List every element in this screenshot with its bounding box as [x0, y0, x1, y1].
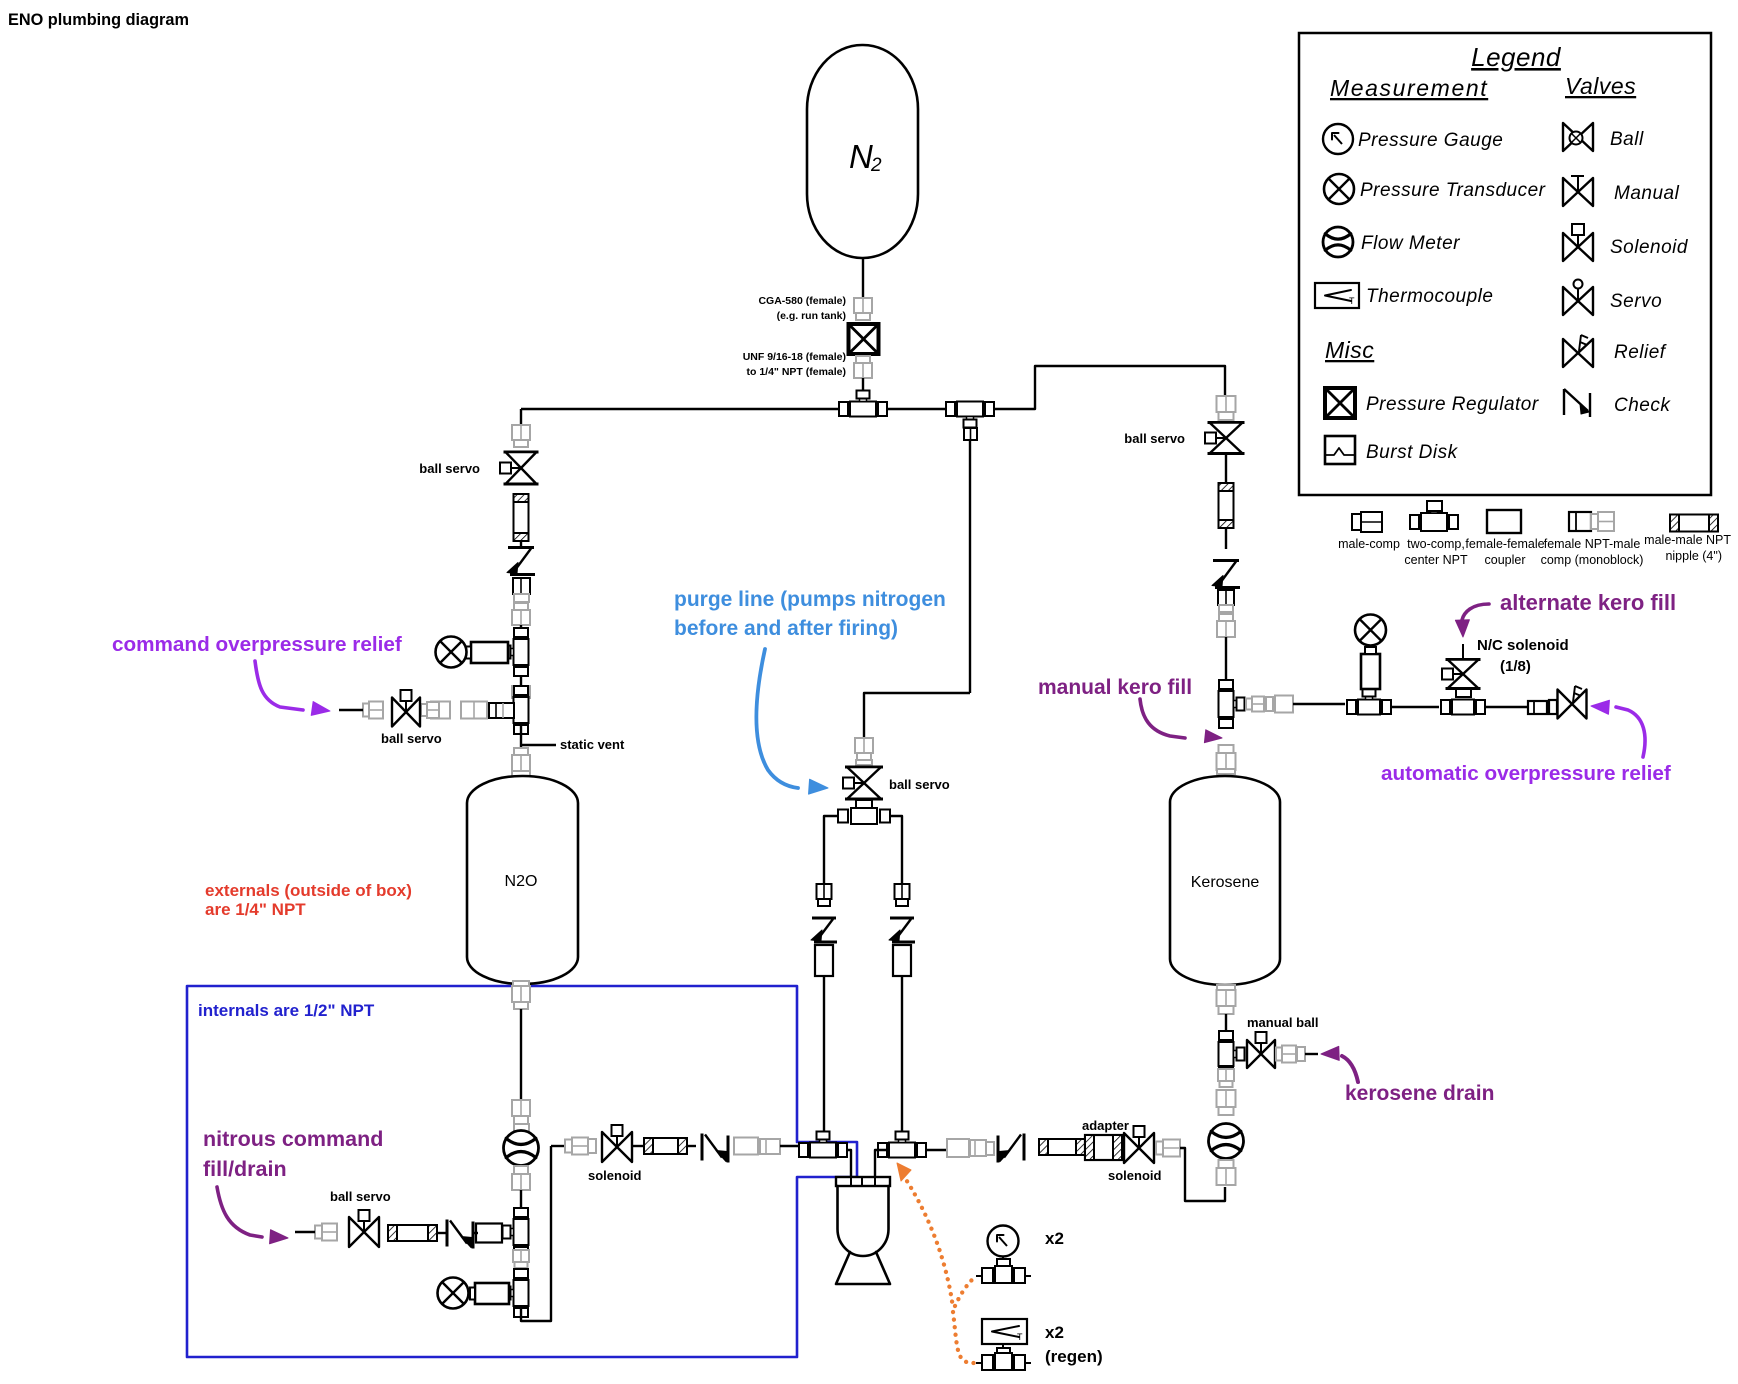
- wire to tee T7: [780, 1145, 800, 1147]
- relief valve RV1: [1558, 686, 1587, 719]
- label ball servo BS1: [419, 461, 480, 476]
- nipple solenoid line: [644, 1138, 687, 1154]
- engine nozzle: [836, 1252, 890, 1284]
- tank N2: [807, 45, 918, 258]
- svg-text:T: T: [1349, 296, 1355, 306]
- svg-text:kerosene drain: kerosene drain: [1345, 1082, 1494, 1105]
- fitting male-comp above T4: [512, 686, 530, 703]
- label N2O: [505, 873, 538, 890]
- arrow purge line: [756, 649, 828, 794]
- tee T4 relief branch tee: [503, 686, 529, 734]
- wire nipple to check CV1: [520, 541, 522, 547]
- key monoblock symbol: [1569, 512, 1614, 531]
- wire FM1 to tee T5: [520, 1190, 522, 1219]
- fitting stack below CV7: [1217, 590, 1235, 637]
- ball servo valve BS3: [349, 1210, 379, 1247]
- wire fill-drain stub: [295, 1231, 315, 1233]
- legend check valve text: [1614, 395, 1671, 416]
- engine chamber: [838, 1186, 889, 1256]
- key male-comp symbol: [1352, 512, 1382, 532]
- key two-comp label: [1404, 537, 1468, 567]
- fitting male-comp solenoid line start: [565, 1138, 596, 1155]
- fitting monoblock left of T4: [489, 703, 514, 718]
- tee T1 two-comp center NPT: [839, 391, 887, 417]
- wire purge left drop: [823, 976, 825, 1134]
- svg-text:UNF 9/16-18 (female): UNF 9/16-18 (female): [743, 351, 846, 363]
- legend burst disk text: [1366, 442, 1459, 463]
- label x2 regen: [1045, 1323, 1103, 1366]
- key nipple symbol: [1670, 515, 1718, 532]
- key nipple label: [1644, 533, 1731, 563]
- arrow automatic overpressure relief: [1591, 700, 1645, 757]
- wire purge drop from T2: [969, 421, 971, 693]
- fitting male-comp below regulator: [854, 356, 872, 378]
- wire T4 to static vent: [520, 723, 522, 752]
- tee T13 drain tee: [1219, 1031, 1245, 1077]
- svg-text:fill/drain: fill/drain: [203, 1157, 287, 1181]
- wire purge left branch: [824, 816, 838, 884]
- label solenoid SV3: [1108, 1168, 1162, 1183]
- wire manifold T1 to T2: [876, 408, 949, 410]
- legend pressure transducer symbol: [1324, 174, 1354, 204]
- legend manual valve text: [1614, 183, 1680, 204]
- adapter fitting: [1085, 1135, 1122, 1160]
- svg-text:Servo: Servo: [1610, 291, 1662, 312]
- fitting male-comp left: [421, 702, 439, 718]
- flow meter FM2: [1209, 1124, 1244, 1159]
- svg-text:ENO plumbing diagram: ENO plumbing diagram: [8, 11, 189, 29]
- thermocouple TC1: [982, 1319, 1027, 1344]
- label kerosene drain: [1345, 1082, 1494, 1105]
- wire tank to T13: [1225, 1014, 1227, 1031]
- tee T3 transducer tee: [503, 628, 529, 676]
- key female-female label: [1465, 537, 1544, 567]
- legend relief valve text: [1614, 342, 1667, 363]
- orange dotted branch to thermocouple: [953, 1312, 974, 1363]
- tank Kerosene: [1170, 776, 1280, 985]
- fitting male-comp below FM2: [1217, 1160, 1236, 1185]
- label ball servo BS2: [381, 731, 442, 746]
- svg-text:comp (monoblock): comp (monoblock): [1541, 553, 1644, 567]
- pressure transducer PT2: [438, 1278, 510, 1309]
- arrow command overpressure relief: [255, 661, 330, 715]
- legend pressure regulator text: [1366, 394, 1539, 415]
- wire BS5 to nipple: [1225, 454, 1227, 483]
- svg-text:(1/8): (1/8): [1500, 658, 1531, 675]
- label command overpressure relief: [112, 633, 402, 656]
- svg-text:ball servo: ball servo: [1124, 431, 1185, 446]
- legend solenoid valve symbol: [1563, 224, 1593, 261]
- wire to tee T3: [520, 625, 522, 631]
- label static vent: [560, 737, 625, 752]
- svg-text:center NPT: center NPT: [1404, 553, 1468, 567]
- svg-text:Manual: Manual: [1614, 183, 1680, 204]
- legend header Misc: [1325, 337, 1374, 363]
- legend header Valves: [1565, 73, 1636, 99]
- legend pressure transducer text: [1360, 180, 1546, 201]
- svg-text:solenoid: solenoid: [1108, 1168, 1162, 1183]
- svg-text:coupler: coupler: [1485, 553, 1526, 567]
- legend header Measurement: [1330, 75, 1488, 101]
- wire corner to solenoid fitting: [551, 1145, 565, 1147]
- tee T6 transducer tee: [503, 1269, 529, 1317]
- legend relief valve symbol: [1563, 335, 1593, 367]
- check valve CV1: [507, 548, 535, 575]
- svg-text:Kerosene: Kerosene: [1191, 874, 1260, 891]
- legend ball valve text: [1610, 129, 1644, 150]
- tank N2O: [467, 776, 578, 984]
- svg-text:before and after firing): before and after firing): [674, 617, 898, 640]
- legend pressure gauge symbol: [1323, 124, 1353, 154]
- label Kerosene: [1191, 874, 1260, 891]
- svg-text:solenoid: solenoid: [588, 1168, 642, 1183]
- svg-text:are 1/4" NPT: are 1/4" NPT: [205, 900, 306, 919]
- legend title: [1471, 42, 1562, 72]
- svg-text:CGA-580 (female): CGA-580 (female): [758, 295, 846, 307]
- legend manual valve symbol: [1563, 176, 1593, 206]
- fitting comp right of T10: [1246, 696, 1293, 713]
- svg-text:N2O: N2O: [505, 873, 538, 890]
- pressure gauge PG1: [988, 1226, 1019, 1260]
- svg-text:N: N: [849, 138, 873, 175]
- solenoid valve SV1: [602, 1125, 632, 1162]
- svg-text:Pressure Regulator: Pressure Regulator: [1366, 394, 1539, 415]
- label adapter: [1082, 1118, 1129, 1133]
- thermocouple stem: [997, 1344, 1010, 1356]
- solenoid valve SV3: [1124, 1126, 1154, 1163]
- svg-text:nipple (4"): nipple (4"): [1665, 549, 1722, 563]
- arrow alternate kero fill: [1455, 604, 1489, 637]
- wire T7 to manifold: [846, 1150, 851, 1178]
- legend servo valve symbol: [1563, 280, 1593, 316]
- fitting monoblock solenoid line: [760, 1139, 780, 1154]
- legend pressure regulator symbol: [1325, 388, 1355, 418]
- svg-text:externals (outside of box): externals (outside of box): [205, 881, 412, 900]
- tee T8 purge splitter: [838, 808, 890, 824]
- fitting male-comp below N2O tank: [512, 981, 530, 1009]
- svg-text:Pressure Gauge: Pressure Gauge: [1358, 130, 1503, 151]
- svg-text:Flow Meter: Flow Meter: [1361, 233, 1460, 254]
- N/C solenoid valve SV2: [1442, 644, 1481, 689]
- svg-text:male-comp: male-comp: [1338, 537, 1400, 551]
- fitting male-comp below T5: [513, 1250, 529, 1268]
- wire left riser down from manifold: [520, 409, 522, 425]
- check valve CV3: [702, 1134, 728, 1163]
- label internals are 1/2 NPT: [198, 1001, 375, 1020]
- svg-text:Burst Disk: Burst Disk: [1366, 442, 1459, 463]
- cylinder purge right: [893, 945, 911, 976]
- fitting male-comp below N2 tank: [854, 298, 872, 320]
- fitting below SV2: [1456, 689, 1471, 697]
- fitting below BS4: [856, 800, 872, 809]
- tee T7 engine left feed: [799, 1132, 847, 1158]
- coupler solenoid line: [734, 1138, 758, 1155]
- label solenoid SV1: [588, 1168, 642, 1183]
- legend servo valve text: [1610, 291, 1662, 312]
- label CGA-580 (female): [758, 295, 846, 322]
- svg-text:Valves: Valves: [1565, 73, 1636, 99]
- label ball servo BS5: [1124, 431, 1185, 446]
- coupler pair left of T4: [431, 702, 487, 719]
- fitting drain: [1276, 1046, 1305, 1063]
- svg-text:female NPT-male: female NPT-male: [1544, 537, 1641, 551]
- fitting male-comp below kerosene tank: [1217, 985, 1236, 1014]
- tee T5 fill-drain tee: [503, 1208, 529, 1256]
- svg-text:Ball: Ball: [1610, 129, 1644, 150]
- svg-text:purge line (pumps nitrogen: purge line (pumps nitrogen: [674, 588, 946, 611]
- wire main manifold horizontal y=409: [521, 408, 840, 410]
- tee T9 engine right feed: [878, 1132, 926, 1158]
- coupler kerosene feed: [947, 1139, 969, 1157]
- legend thermocouple text: [1366, 286, 1493, 307]
- legend box: [1299, 33, 1711, 495]
- label purge line: [674, 588, 946, 640]
- check valve CV5: [889, 918, 915, 942]
- legend thermocouple symbol: [1315, 283, 1359, 308]
- legend flow meter text: [1361, 233, 1460, 254]
- wire regulator to T1: [862, 378, 864, 395]
- svg-text:internals are 1/2" NPT: internals are 1/2" NPT: [198, 1001, 375, 1020]
- svg-text:Pressure Transducer: Pressure Transducer: [1360, 180, 1546, 201]
- svg-text:Thermocouple: Thermocouple: [1366, 286, 1493, 307]
- gauge tee assembly: [976, 1259, 1031, 1283]
- svg-text:Legend: Legend: [1471, 42, 1562, 72]
- svg-text:ball servo: ball servo: [330, 1189, 391, 1204]
- tee T12 below SV2: [1441, 700, 1485, 715]
- engine injector manifold: [836, 1177, 890, 1186]
- wire T6 loop to solenoid line: [521, 1146, 551, 1321]
- orange dotted leader to engine: [897, 1163, 953, 1308]
- fitting male-comp above BS4: [855, 738, 873, 765]
- label nitrous command fill-drain: [203, 1127, 383, 1181]
- svg-text:ball servo: ball servo: [889, 777, 950, 792]
- arrow manual kero fill: [1140, 699, 1222, 743]
- svg-text:Relief: Relief: [1614, 342, 1667, 363]
- legend check valve symbol: [1564, 389, 1590, 417]
- key two-comp symbol: [1410, 501, 1458, 531]
- fitting male-comp above kerosene tank: [1217, 745, 1236, 774]
- check valve CV4: [811, 918, 837, 942]
- svg-text:alternate kero fill: alternate kero fill: [1500, 590, 1676, 615]
- label N/C solenoid: [1477, 637, 1569, 675]
- nipple kerosene feed: [1039, 1139, 1085, 1155]
- wire T9 to kerosene fittings: [925, 1149, 947, 1151]
- label automatic overpressure relief: [1381, 762, 1671, 785]
- label UNF 9/16-18: [743, 351, 846, 378]
- check valve CV2 fill-drain: [447, 1220, 473, 1249]
- label externals are 1/4 NPT: [205, 881, 412, 919]
- legend pressure gauge text: [1358, 130, 1503, 151]
- svg-text:ball servo: ball servo: [381, 731, 442, 746]
- thermocouple tee assembly: [976, 1353, 1031, 1370]
- legend burst disk symbol: [1325, 436, 1355, 464]
- svg-text:adapter: adapter: [1082, 1118, 1129, 1133]
- manual ball valve MB1: [1247, 1032, 1275, 1068]
- label ball servo BS3: [330, 1189, 391, 1204]
- orange dotted branch to gauge: [955, 1278, 974, 1306]
- fitting coupler left of T5: [476, 1224, 502, 1243]
- svg-text:N/C solenoid: N/C solenoid: [1477, 637, 1569, 654]
- arrow kerosene drain: [1321, 1046, 1358, 1082]
- svg-text:two-comp,: two-comp,: [1407, 537, 1465, 551]
- svg-text:Misc: Misc: [1325, 337, 1374, 363]
- fitting male-comp kerosene riser top: [1217, 396, 1236, 420]
- arrow nitrous command fill-drain: [217, 1187, 288, 1244]
- fitting male-comp fill-drain end: [315, 1224, 337, 1241]
- wire nipple to CV7: [1225, 528, 1227, 549]
- label manual ball: [1247, 1015, 1319, 1030]
- label x2 gauges: [1045, 1229, 1064, 1248]
- svg-text:male-male NPT: male-male NPT: [1644, 533, 1731, 547]
- ball servo valve BS2: [392, 690, 420, 727]
- key female-female symbol: [1487, 510, 1521, 533]
- key monoblock label: [1541, 537, 1644, 567]
- label manual kero fill: [1038, 676, 1192, 699]
- svg-text:x2: x2: [1045, 1323, 1064, 1342]
- wire drain stub: [1305, 1053, 1318, 1055]
- tee T2 two-comp center NPT: [946, 402, 994, 441]
- fitting male-comp right of SV3: [1156, 1140, 1180, 1157]
- fitting male-comp above flow meter FM1: [512, 1100, 530, 1132]
- svg-text:Solenoid: Solenoid: [1610, 237, 1689, 258]
- wire purge right branch: [890, 816, 902, 884]
- cylinder purge left: [815, 945, 833, 976]
- fitting male-comp above N2O tank: [512, 748, 530, 776]
- tee T10 kero fill tee: [1219, 680, 1245, 728]
- svg-text:nitrous command: nitrous command: [203, 1127, 383, 1151]
- blue internals boundary box: [187, 986, 857, 1357]
- svg-text:ball servo: ball servo: [419, 461, 480, 476]
- key male-comp label: [1338, 537, 1400, 551]
- svg-text:x2: x2: [1045, 1229, 1064, 1248]
- wire N2 tank to regulator: [862, 258, 864, 298]
- check valve CV7: [1212, 561, 1240, 588]
- svg-text:female-female: female-female: [1465, 537, 1544, 551]
- wire T10 branch: [1293, 703, 1345, 705]
- pressure transducer PT1: [436, 637, 509, 668]
- svg-text:(e.g. run tank): (e.g. run tank): [777, 310, 846, 322]
- legend ball valve symbol: [1563, 123, 1593, 151]
- fitting male-comp below flow meter FM1: [512, 1166, 530, 1190]
- static vent stub: [521, 744, 556, 746]
- coupler before relief: [1528, 700, 1557, 714]
- fitting purge left: [817, 884, 832, 906]
- nipple kerosene riser: [1219, 483, 1234, 528]
- fitting monoblock kerosene feed: [970, 1140, 994, 1156]
- wire nipple to CV3: [687, 1145, 696, 1147]
- wire purge right drop: [901, 976, 903, 1134]
- legend flow meter symbol: [1323, 227, 1353, 257]
- wire solenoid to nipple: [632, 1145, 644, 1147]
- pressure regulator U1: [849, 324, 879, 354]
- fitting male-comp far left: [363, 702, 383, 719]
- label N2: [849, 138, 882, 176]
- legend solenoid valve text: [1610, 237, 1689, 258]
- wire nipple to CV2: [437, 1232, 447, 1234]
- svg-text:to 1/4" NPT (female): to 1/4" NPT (female): [747, 366, 847, 378]
- transducer standpipe PT3: [1355, 615, 1386, 690]
- flow meter FM1: [504, 1131, 539, 1166]
- fitting purge right: [895, 884, 910, 906]
- wire T12 to relief: [1486, 706, 1528, 708]
- fitting male-comp left riser: [512, 425, 530, 447]
- ball servo valve BS4: [843, 767, 883, 799]
- wire T3 to fitting: [520, 676, 522, 686]
- label ball servo BS4: [889, 777, 950, 792]
- label alternate kero fill: [1500, 590, 1676, 615]
- ball servo valve BS5: [1205, 423, 1245, 454]
- wire T9 to manifold: [875, 1150, 889, 1178]
- svg-text:command overpressure relief: command overpressure relief: [112, 633, 402, 656]
- tee T11 transducer tee: [1347, 689, 1391, 715]
- svg-text:2: 2: [870, 155, 882, 176]
- nipple fill-drain: [388, 1225, 437, 1241]
- fitting male-comp above FM2: [1217, 1069, 1236, 1115]
- wire CV2 to T5 fitting: [472, 1232, 478, 1234]
- svg-text:manual kero fill: manual kero fill: [1038, 676, 1192, 699]
- svg-text:Measurement: Measurement: [1330, 75, 1488, 101]
- wire to tee T10: [1225, 637, 1227, 680]
- svg-text:T: T: [1017, 1332, 1023, 1342]
- svg-text:Check: Check: [1614, 395, 1671, 416]
- wire kerosene riser join: [1180, 1148, 1225, 1201]
- fitting stack below CV1: [512, 578, 530, 625]
- wire relief branch stub: [339, 709, 363, 711]
- wire N2O tank to flow meter: [520, 1009, 522, 1100]
- title text "ENO plumbing diagram": [8, 11, 189, 29]
- wire purge jog to ball servo: [864, 693, 970, 738]
- svg-text:static vent: static vent: [560, 737, 625, 752]
- nipple male-male NPT left riser: [514, 494, 529, 541]
- ball servo valve BS1: [500, 452, 539, 484]
- check valve CV6: [998, 1134, 1024, 1163]
- svg-text:manual ball: manual ball: [1247, 1015, 1319, 1030]
- svg-text:automatic overpressure relief: automatic overpressure relief: [1381, 762, 1671, 785]
- wire T11 to SV2: [1392, 706, 1439, 708]
- wire T2 to right riser: [993, 366, 1225, 409]
- svg-text:(regen): (regen): [1045, 1347, 1103, 1366]
